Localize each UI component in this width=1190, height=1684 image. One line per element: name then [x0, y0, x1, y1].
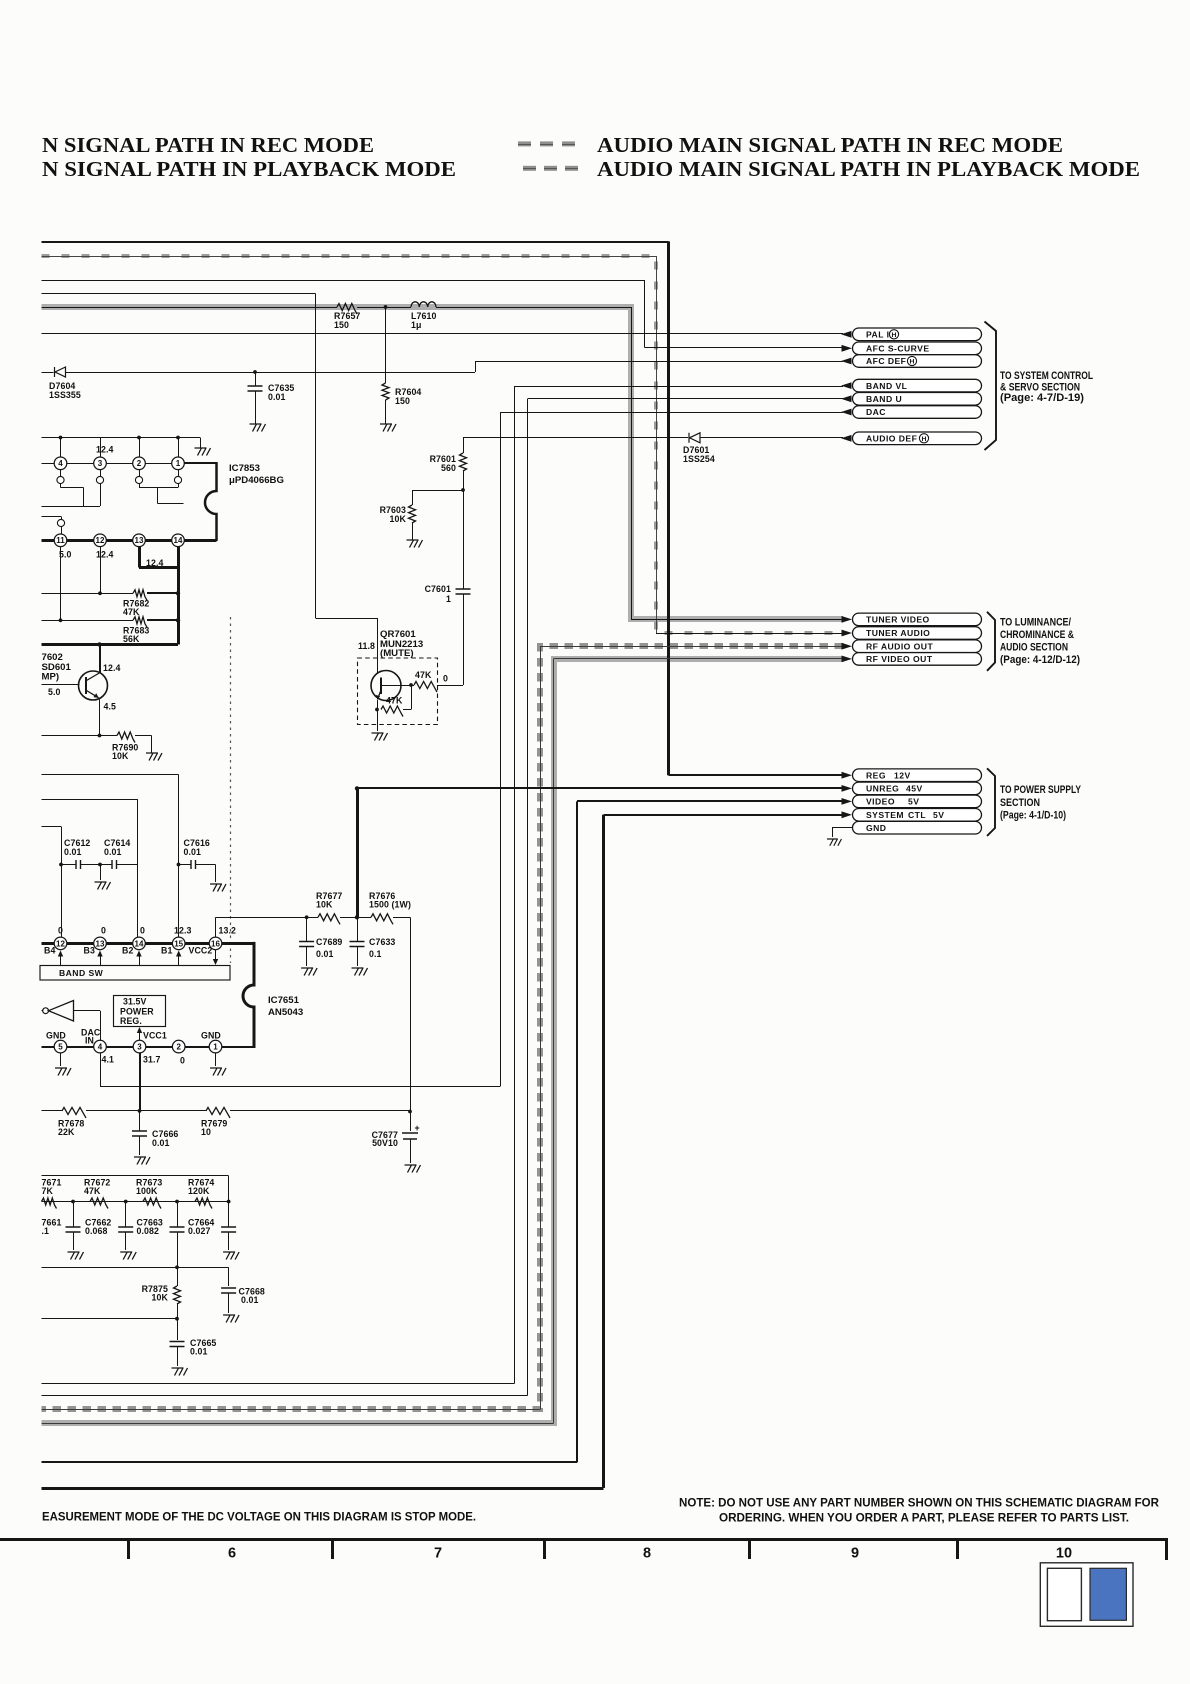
svg-text:GND: GND — [46, 1031, 66, 1041]
svg-text:0.068: 0.068 — [85, 1226, 108, 1236]
svg-text:CHROMINANCE &: CHROMINANCE & — [1000, 629, 1074, 641]
svg-text:REG: REG — [866, 770, 886, 780]
svg-text:TUNER VIDEO: TUNER VIDEO — [866, 615, 930, 625]
svg-text:0.01: 0.01 — [104, 847, 122, 857]
svg-text:AUDIO MAIN SIGNAL PATH IN PLAY: AUDIO MAIN SIGNAL PATH IN PLAYBACK MODE — [597, 157, 1140, 181]
svg-text:4: 4 — [58, 459, 63, 468]
svg-text:13: 13 — [135, 536, 144, 545]
svg-text:5V: 5V — [933, 810, 944, 820]
svg-text:3: 3 — [98, 459, 103, 468]
svg-text:3: 3 — [137, 1043, 142, 1052]
svg-text:8: 8 — [643, 1546, 651, 1562]
svg-text:H: H — [910, 359, 915, 366]
svg-text:45V: 45V — [906, 784, 923, 794]
svg-text:IC7651: IC7651 — [268, 995, 300, 1006]
svg-text:0: 0 — [101, 926, 106, 936]
svg-text:TO POWER SUPPLY: TO POWER SUPPLY — [1000, 784, 1081, 796]
svg-text:31.7: 31.7 — [143, 1055, 161, 1065]
svg-text:0.01: 0.01 — [241, 1295, 259, 1305]
svg-text:AUDIO MAIN SIGNAL PATH IN REC: AUDIO MAIN SIGNAL PATH IN REC MODE — [597, 133, 1063, 157]
svg-text:5: 5 — [58, 1043, 63, 1052]
svg-text:0.082: 0.082 — [137, 1226, 160, 1236]
svg-text:0.01: 0.01 — [152, 1138, 170, 1148]
svg-text:5V: 5V — [908, 797, 919, 807]
svg-text:11: 11 — [56, 536, 65, 545]
svg-text:BAND VL: BAND VL — [866, 381, 907, 391]
svg-text:AN5043: AN5043 — [268, 1007, 303, 1018]
svg-text:C7601: C7601 — [425, 584, 451, 594]
svg-text:GND: GND — [866, 823, 886, 833]
svg-text:47K: 47K — [415, 670, 432, 680]
svg-text:0: 0 — [58, 926, 63, 936]
svg-text:22K: 22K — [58, 1127, 75, 1137]
svg-text:C7689: C7689 — [316, 937, 342, 947]
svg-text:1SS254: 1SS254 — [683, 454, 715, 464]
svg-text:B1: B1 — [161, 946, 172, 956]
svg-text:2: 2 — [176, 1043, 181, 1052]
svg-text:31.5V: 31.5V — [123, 997, 147, 1007]
svg-text:0.01: 0.01 — [64, 847, 82, 857]
svg-text:N SIGNAL PATH IN PLAYBACK MODE: N SIGNAL PATH IN PLAYBACK MODE — [42, 157, 456, 181]
svg-text:47K: 47K — [123, 607, 140, 617]
svg-text:EASUREMENT MODE OF THE DC VOLT: EASUREMENT MODE OF THE DC VOLTAGE ON THI… — [42, 1512, 476, 1524]
svg-text:14: 14 — [135, 939, 144, 948]
svg-text:MP): MP) — [42, 672, 60, 683]
svg-text:ORDERING. WHEN YOU ORDER A PA: ORDERING. WHEN YOU ORDER A PART, PLEASE … — [719, 1513, 1129, 1525]
svg-text:SYSTEM: SYSTEM — [866, 810, 904, 820]
svg-text:CTL: CTL — [908, 810, 926, 820]
svg-text:μPD4066BG: μPD4066BG — [229, 475, 284, 486]
svg-text:1: 1 — [213, 1043, 218, 1052]
svg-text:NOTE: DO NOT USE ANY PART NUMB: NOTE: DO NOT USE ANY PART NUMBER SHOWN O… — [679, 1498, 1160, 1510]
svg-text:11.8: 11.8 — [358, 641, 375, 651]
svg-text:IN: IN — [85, 1036, 94, 1046]
svg-text:BAND U: BAND U — [866, 394, 902, 404]
svg-text:56K: 56K — [123, 634, 140, 644]
svg-text:12.4: 12.4 — [96, 550, 114, 560]
svg-text:7: 7 — [434, 1546, 442, 1562]
svg-text:1: 1 — [446, 594, 451, 604]
svg-text:1μ: 1μ — [411, 320, 421, 330]
svg-text:(Page: 4-12/D-12): (Page: 4-12/D-12) — [1000, 654, 1080, 666]
svg-text:0.1: 0.1 — [369, 949, 382, 959]
svg-text:4.1: 4.1 — [102, 1055, 115, 1065]
svg-text:9: 9 — [851, 1546, 859, 1562]
svg-text:UNREG: UNREG — [866, 784, 899, 794]
svg-text:12.4: 12.4 — [103, 663, 121, 673]
svg-text:14: 14 — [174, 536, 183, 545]
svg-text:PAL I: PAL I — [866, 330, 889, 340]
svg-text:VCC2: VCC2 — [189, 946, 213, 956]
svg-text:.1: .1 — [42, 1226, 50, 1236]
svg-text:50V10: 50V10 — [372, 1138, 398, 1148]
svg-text:6: 6 — [228, 1546, 236, 1562]
svg-text:10K: 10K — [112, 751, 129, 761]
svg-text:N SIGNAL PATH IN REC MODE: N SIGNAL PATH IN REC MODE — [42, 133, 374, 157]
svg-text:100K: 100K — [136, 1186, 158, 1196]
svg-text:TO SYSTEM CONTROL: TO SYSTEM CONTROL — [1000, 370, 1093, 382]
svg-text:1500 (1W): 1500 (1W) — [369, 900, 411, 910]
svg-text:10: 10 — [201, 1127, 211, 1137]
svg-text:560: 560 — [441, 463, 456, 473]
svg-text:7K: 7K — [42, 1186, 54, 1196]
svg-text:15: 15 — [174, 939, 183, 948]
svg-text:12: 12 — [56, 939, 65, 948]
svg-text:12.4: 12.4 — [96, 445, 114, 455]
svg-text:12V: 12V — [894, 770, 911, 780]
svg-text:120K: 120K — [188, 1186, 210, 1196]
svg-text:B2: B2 — [122, 946, 133, 956]
svg-text:B4: B4 — [44, 946, 55, 956]
svg-text:13.2: 13.2 — [219, 926, 237, 936]
svg-text:VIDEO: VIDEO — [866, 797, 895, 807]
svg-text:47K: 47K — [84, 1186, 101, 1196]
svg-text:0.027: 0.027 — [188, 1226, 211, 1236]
svg-text:RF VIDEO OUT: RF VIDEO OUT — [866, 654, 933, 664]
svg-text:13: 13 — [96, 939, 105, 948]
svg-text:1SS355: 1SS355 — [49, 390, 81, 400]
svg-text:1: 1 — [176, 459, 181, 468]
svg-text:0.01: 0.01 — [268, 392, 286, 402]
svg-text:5.0: 5.0 — [48, 687, 61, 697]
svg-text:4.5: 4.5 — [104, 702, 117, 712]
svg-text:AUDIO DEF: AUDIO DEF — [866, 434, 917, 444]
svg-text:10K: 10K — [152, 1293, 169, 1303]
svg-text:AUDIO SECTION: AUDIO SECTION — [1000, 642, 1068, 654]
svg-text:H: H — [892, 332, 897, 339]
svg-text:(MUTE): (MUTE) — [380, 648, 414, 659]
svg-text:REG.: REG. — [120, 1016, 142, 1026]
svg-text:0: 0 — [443, 674, 448, 684]
svg-text:4: 4 — [98, 1043, 103, 1052]
svg-text:10K: 10K — [316, 900, 333, 910]
svg-text:0: 0 — [180, 1056, 185, 1066]
svg-text:AFC S-CURVE: AFC S-CURVE — [866, 344, 930, 354]
svg-text:B3: B3 — [84, 946, 95, 956]
svg-text:10: 10 — [1056, 1546, 1072, 1562]
svg-text:10K: 10K — [390, 514, 407, 524]
svg-text:AFC DEF: AFC DEF — [866, 356, 906, 366]
svg-text:POWER: POWER — [120, 1007, 154, 1017]
svg-text:16: 16 — [211, 939, 220, 948]
svg-text:IC7853: IC7853 — [229, 463, 260, 474]
svg-text:VCC1: VCC1 — [143, 1031, 167, 1041]
svg-text:2: 2 — [137, 459, 142, 468]
svg-text:(Page: 4-7/D-19): (Page: 4-7/D-19) — [1000, 392, 1084, 404]
svg-text:TUNER AUDIO: TUNER AUDIO — [866, 628, 930, 638]
svg-text:0.01: 0.01 — [316, 949, 334, 959]
svg-text:+: + — [415, 1123, 420, 1133]
svg-text:(Page: 4-1/D-10): (Page: 4-1/D-10) — [1000, 810, 1066, 822]
svg-text:RF AUDIO OUT: RF AUDIO OUT — [866, 641, 933, 651]
svg-text:SECTION: SECTION — [1000, 797, 1040, 809]
svg-text:C7633: C7633 — [369, 937, 395, 947]
svg-text:DAC: DAC — [866, 407, 886, 417]
svg-text:0.01: 0.01 — [190, 1347, 208, 1357]
svg-text:150: 150 — [334, 320, 349, 330]
svg-text:BAND SW: BAND SW — [59, 968, 104, 978]
svg-text:12.3: 12.3 — [174, 926, 192, 936]
svg-text:0.01: 0.01 — [184, 847, 202, 857]
svg-text:H: H — [922, 436, 927, 443]
svg-text:47K: 47K — [386, 696, 403, 706]
svg-text:150: 150 — [395, 396, 410, 406]
svg-text:TO LUMINANCE/: TO LUMINANCE/ — [1000, 617, 1071, 629]
svg-text:12: 12 — [96, 536, 105, 545]
svg-text:GND: GND — [201, 1031, 221, 1041]
svg-text:0: 0 — [140, 926, 145, 936]
